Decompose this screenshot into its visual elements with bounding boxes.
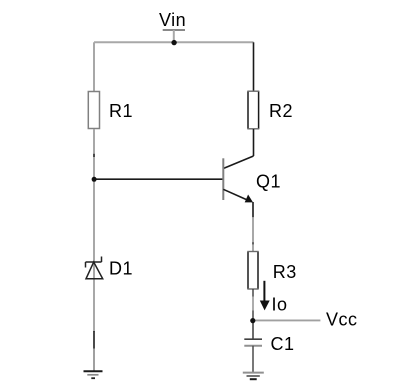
svg-text:R2: R2 (269, 101, 293, 121)
svg-text:R3: R3 (273, 262, 297, 282)
wire lower left gray segment (93, 349, 95, 372)
node base junction (92, 177, 97, 182)
wire C1 to ground (252, 346, 254, 373)
wire Vin stub (173, 30, 175, 42)
node output junction (250, 318, 255, 323)
svg-text:D1: D1 (109, 259, 133, 279)
resistor R2 (247, 91, 259, 129)
svg-text:Vin: Vin (159, 10, 186, 30)
pin tick on emitter wire (252, 242, 254, 244)
wire base node down through D1 (93, 179, 95, 332)
capacitor C1 (244, 339, 262, 346)
wire R2 to bend (253, 129, 255, 156)
terminal bar Vin (163, 29, 185, 31)
zener diode D1 (86, 257, 103, 279)
svg-text:Q1: Q1 (256, 171, 281, 191)
wire top horizontal (94, 41, 254, 43)
wire output horizontal to Vcc (253, 319, 320, 321)
resistor R1 (88, 92, 99, 129)
wire R3 to output node (252, 289, 254, 321)
wire node to C1 (252, 321, 254, 339)
ground right (243, 373, 264, 380)
svg-text:Vcc: Vcc (326, 309, 358, 329)
wire emitter vertical black part (252, 202, 254, 217)
node Vin junction (171, 40, 176, 45)
svg-text:Io: Io (272, 294, 288, 314)
current arrow Io (260, 281, 270, 311)
pin tick on left wire (93, 154, 95, 157)
wire base horizontal (94, 178, 223, 180)
wire collector diagonal (223, 156, 253, 169)
wire R1 to base node (93, 129, 95, 179)
wire emitter diagonal with arrow (223, 189, 253, 202)
svg-text:C1: C1 (271, 334, 295, 354)
ground left (84, 371, 103, 378)
svg-text:R1: R1 (109, 101, 133, 121)
wire emitter vertical gray part (252, 217, 254, 251)
wire left vertical upper (93, 42, 95, 92)
wire lower left black segment (93, 331, 95, 349)
resistor R3 (247, 252, 258, 290)
wire right vertical (253, 42, 255, 91)
transistor Q1 base bar (222, 158, 224, 200)
